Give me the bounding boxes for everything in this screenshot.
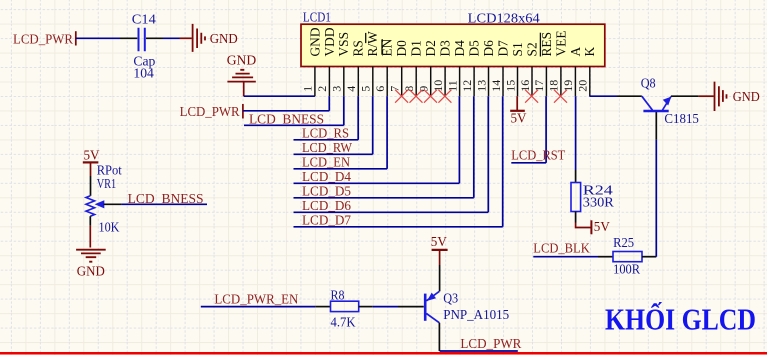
wire R25 to Q8 base: [655, 112, 657, 257]
svg-text:20: 20: [576, 80, 590, 92]
net label LCD_D4: [302, 170, 351, 185]
svg-text:GND: GND: [227, 53, 257, 68]
wire C14 to GND: [146, 37, 180, 39]
svg-text:RS: RS: [351, 40, 366, 56]
svg-text:1: 1: [301, 86, 315, 92]
wire LCD_PWR to C14: [76, 37, 138, 39]
wire Q8 emitter to GND: [671, 95, 714, 97]
svg-text:7: 7: [388, 86, 402, 92]
net label LCD_RST: [511, 149, 565, 164]
svg-text:14: 14: [489, 80, 503, 92]
svg-text:330R: 330R: [583, 196, 615, 211]
svg-text:R/W: R/W: [365, 31, 380, 57]
svg-text:10K: 10K: [99, 220, 120, 235]
pin 20 (K): [576, 47, 598, 97]
svg-text:VDD: VDD: [322, 27, 337, 56]
svg-text:GND: GND: [210, 32, 238, 47]
no-connect X pin18: [554, 90, 567, 103]
pin 7 (D0): [388, 40, 410, 96]
svg-text:K: K: [582, 47, 597, 57]
pin 19 (A): [561, 47, 583, 97]
svg-text:5V: 5V: [511, 112, 527, 127]
net label LCD_D5: [302, 185, 351, 200]
svg-text:D4: D4: [452, 40, 467, 57]
net label LCD_BNESS (pin3): [249, 112, 324, 127]
svg-text:Q8: Q8: [641, 76, 656, 91]
pin 2 (VDD): [315, 27, 337, 96]
pin 18 (VEE): [547, 30, 569, 96]
pin 14 (D7): [489, 40, 511, 96]
pin 11 (D4): [445, 40, 467, 96]
net label LCD_PWR_EN: [214, 293, 298, 308]
svg-text:LCD_PWR: LCD_PWR: [13, 33, 74, 48]
wire LCD_D5 row: [294, 197, 474, 199]
wire pin11 drop: [458, 96, 460, 183]
svg-text:5V: 5V: [594, 220, 610, 235]
svg-text:LCD_RST: LCD_RST: [511, 149, 565, 164]
svg-text:S2: S2: [524, 42, 539, 56]
ground GND (pot bottom): [76, 226, 106, 280]
wire LCD_EN row: [294, 168, 388, 170]
pin 9 (D2): [417, 40, 439, 96]
no-connect X pin9: [424, 90, 437, 103]
svg-text:19: 19: [561, 80, 575, 92]
power 5V (pin 15): [510, 96, 526, 126]
potentiometer VR1 RPot: [86, 163, 122, 235]
ground GND (above pin 1, earth style pointing up): [227, 53, 257, 96]
net label LCD_D6: [302, 199, 351, 214]
svg-text:LCD_PWR_EN: LCD_PWR_EN: [214, 293, 298, 308]
wire LCD_BNESS row: [244, 124, 344, 126]
power 5V (Q3 emitter): [431, 235, 448, 265]
svg-text:D5: D5: [467, 40, 482, 57]
svg-text:6: 6: [373, 86, 387, 92]
net label LCD_D7: [302, 214, 351, 229]
wire pin2 drop: [328, 96, 330, 111]
svg-text:VEE: VEE: [553, 30, 568, 56]
wire pin5 drop: [372, 96, 374, 154]
svg-text:A: A: [568, 47, 583, 57]
svg-text:3: 3: [330, 86, 344, 92]
wire pin17 drop to LCD_RST: [545, 96, 547, 163]
wire pin6 drop: [386, 96, 388, 169]
pin 3 (VSS): [330, 32, 352, 96]
net label LCD_PWR (top left): [13, 33, 74, 48]
net label LCD_EN: [302, 156, 350, 171]
comment LCD128x64: [468, 11, 540, 26]
net label LCD_PWR (pin2): [180, 104, 243, 120]
svg-text:D2: D2: [423, 40, 438, 56]
pin 5 (R/W): [359, 31, 381, 96]
wire LCD_RST row: [511, 162, 546, 164]
net label LCD_RW: [302, 141, 353, 156]
wire LCD_PWR bottom: [440, 350, 518, 352]
svg-text:RPot: RPot: [97, 163, 122, 178]
svg-text:GND: GND: [733, 90, 760, 105]
svg-text:D6: D6: [481, 40, 496, 57]
svg-text:LCD1: LCD1: [303, 10, 331, 25]
svg-text:PNP_A1015: PNP_A1015: [443, 308, 509, 323]
pin 16 (S2): [518, 42, 540, 96]
wire LCD_PWR_EN to R8: [201, 306, 331, 308]
svg-text:VSS: VSS: [336, 32, 351, 57]
wire LCD_D4 row: [294, 182, 460, 184]
wire LCD_D6 row: [294, 211, 489, 213]
wire LCD_D7 row: [294, 226, 503, 228]
svg-text:17: 17: [532, 80, 546, 92]
transistor Q8 C1815: [641, 76, 699, 127]
wire pin13 drop: [487, 96, 489, 212]
pin 6 (EN): [373, 38, 395, 96]
svg-text:12: 12: [460, 80, 474, 92]
no-connect X pin10: [438, 90, 451, 103]
wire pin12 drop: [473, 96, 475, 198]
svg-text:13: 13: [474, 80, 488, 92]
svg-text:Q3: Q3: [443, 292, 458, 307]
svg-text:C1815: C1815: [664, 112, 699, 127]
pin 13 (D6): [474, 40, 496, 96]
no-connect X pin16: [525, 90, 538, 103]
svg-text:8: 8: [402, 86, 416, 92]
svg-text:2: 2: [315, 86, 329, 92]
svg-text:C14: C14: [132, 12, 156, 27]
svg-text:100R: 100R: [613, 263, 641, 278]
ground GND (right, earth style pointing right): [715, 82, 760, 111]
wire pot wiper: [121, 203, 207, 205]
svg-text:GND: GND: [77, 264, 105, 279]
power 5V (below R24): [576, 220, 610, 235]
title KHOI GLCD: [605, 301, 756, 337]
svg-text:R8: R8: [331, 289, 345, 304]
pin 17 (RES): [532, 32, 554, 96]
svg-text:4: 4: [344, 86, 358, 92]
no-connect X pin7: [395, 90, 408, 103]
port bar LCD_PWR: [75, 31, 77, 45]
svg-text:D3: D3: [438, 40, 453, 57]
pin 8 (D1): [402, 40, 424, 96]
svg-text:11: 11: [445, 80, 459, 92]
svg-text:D0: D0: [394, 40, 409, 57]
svg-text:5V: 5V: [84, 148, 100, 163]
wire LCD_BLK row: [533, 256, 613, 258]
svg-text:104: 104: [133, 67, 154, 82]
svg-text:4.7K: 4.7K: [331, 316, 356, 331]
svg-text:R25: R25: [613, 236, 634, 251]
no-connect X pin8: [410, 90, 423, 103]
transistor Q3 PNP_A1015: [425, 265, 509, 351]
wire LCD_RW row: [294, 153, 373, 155]
svg-text:KHỐI GLCD: KHỐI GLCD: [605, 301, 756, 337]
resistor R24: [571, 170, 614, 223]
net label LCD_RS: [302, 127, 349, 142]
net label LCD_BLK: [533, 241, 590, 256]
svg-text:LCD128x64: LCD128x64: [468, 11, 540, 26]
IC U-LCD1 body LCD128x64: [301, 24, 605, 66]
svg-text:15: 15: [503, 80, 517, 92]
resistor R8: [331, 289, 373, 331]
wire pin3 drop: [343, 96, 345, 125]
ground GND (right of C14, earth style pointing right): [180, 24, 238, 52]
svg-text:5: 5: [359, 86, 373, 92]
svg-text:D1: D1: [409, 40, 424, 56]
designator LCD1: [303, 10, 331, 25]
svg-text:VR1: VR1: [97, 177, 117, 192]
svg-text:9: 9: [417, 86, 431, 92]
wire GND to pin 1: [244, 95, 315, 97]
wire pin4 drop: [357, 96, 359, 140]
resistor R25: [613, 236, 656, 278]
wire LCD_RS row: [294, 139, 359, 141]
pin 4 (RS): [344, 40, 366, 96]
wire pin19 drop to R24: [575, 96, 577, 170]
pin 12 (D5): [460, 40, 482, 96]
net label LCD_BNESS (pot wiper): [128, 192, 204, 207]
pin 1 (GND): [301, 27, 323, 96]
wire R8 to Q3 base: [373, 306, 424, 308]
net label LCD_PWR (Q3 collector): [460, 337, 522, 352]
svg-text:D7: D7: [495, 40, 510, 57]
wire LCD_PWR row: [243, 110, 329, 112]
wire pin20 to Q8: [589, 95, 641, 97]
svg-text:LCD_PWR: LCD_PWR: [460, 337, 522, 352]
power 5V (pot VR1 top): [83, 148, 100, 176]
svg-text:S1: S1: [510, 42, 525, 56]
capacitor C14: [132, 12, 156, 81]
svg-text:10: 10: [431, 80, 445, 92]
wire pin14 drop: [502, 96, 504, 227]
svg-text:LCD_PWR: LCD_PWR: [180, 105, 241, 120]
svg-text:GND: GND: [307, 27, 322, 56]
svg-text:LCD_BLK: LCD_BLK: [533, 241, 590, 256]
svg-text:5V: 5V: [431, 235, 447, 250]
sheet border bottom: [0, 352, 767, 355]
pin 15 (S1): [503, 42, 525, 96]
pin 10 (D3): [431, 40, 453, 96]
